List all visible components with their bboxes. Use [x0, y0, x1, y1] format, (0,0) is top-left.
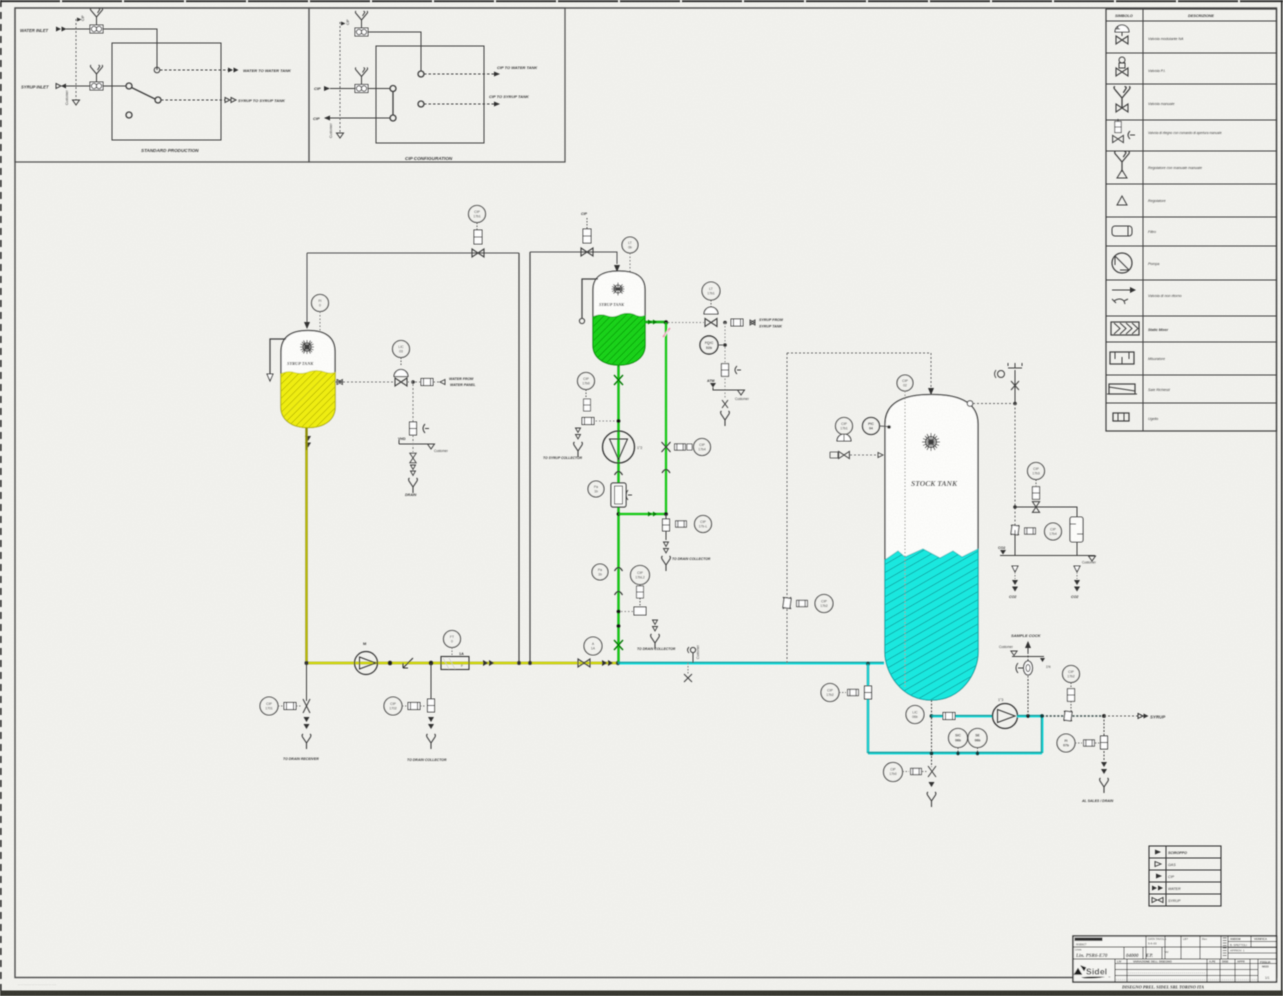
node J5 [617, 512, 621, 516]
arrows right drain [1101, 762, 1107, 774]
pipe cyan return riser [1041, 716, 1043, 753]
legend sym7 filter [1112, 226, 1132, 236]
valve XV4 (cip inlet) [355, 85, 368, 93]
wire CIP riser A down [518, 253, 520, 663]
valve on cyan drop [865, 686, 872, 699]
instrument CIP-1702 [384, 697, 402, 715]
legend sym2 on-off valve [1116, 57, 1128, 76]
tank T3 stock outline [885, 395, 978, 701]
gauge assembly VHD [410, 422, 417, 435]
customer triangle [73, 100, 80, 105]
arrow into stock tank top [928, 388, 934, 395]
vent riser [1014, 370, 1016, 404]
pipe main olive [307, 662, 619, 665]
title row2 cells [1123, 947, 1125, 959]
node J1 [411, 380, 415, 384]
vent circle [998, 371, 1005, 378]
CO2 drain right open arrow [1074, 566, 1080, 572]
customer triangle right [1089, 556, 1096, 561]
solenoid CV-A [474, 230, 482, 244]
key row1 syrup [1155, 850, 1161, 855]
CO2 manifold wire [1000, 555, 1095, 557]
valve drain greentop [722, 400, 728, 408]
page left edge dashes [0, 0, 2, 996]
tank T1 yellow outline [281, 331, 335, 428]
key row3 cip [1156, 874, 1162, 879]
instrument LIC-06 [906, 706, 924, 724]
label CIP small [77, 18, 82, 22]
arrow into green tank [614, 265, 620, 272]
sample cock tee [1012, 656, 1044, 658]
tank T1 yellow fill [281, 371, 335, 428]
wire dashed box to node [621, 611, 634, 613]
valve drain left [303, 699, 310, 713]
node corner [305, 661, 309, 665]
instrument LIC-03 [393, 341, 410, 358]
return arrow [324, 116, 330, 121]
page right edge dark line [1281, 0, 1283, 996]
pipe green cross link [619, 513, 667, 515]
instrument LT-02 on dome [897, 375, 913, 391]
instrument sample right [1063, 666, 1080, 683]
pipe cyan drop [867, 664, 869, 753]
instrument FT above mixer [444, 631, 461, 648]
drain below tank outlet [884, 763, 903, 782]
valve on recirc riser [783, 597, 791, 609]
arrows drain left [304, 717, 310, 729]
node syrup branch [1102, 714, 1106, 718]
node S3 spare [126, 112, 132, 118]
wire CIP header A horizontal [307, 252, 519, 254]
signal wire cip to syrup tank [424, 103, 494, 105]
frame box2 [309, 8, 565, 162]
static mixer SM1 [441, 657, 469, 670]
title row line 2 [1073, 958, 1277, 960]
pipe T1 outlet olive [305, 428, 307, 663]
signal wire cip to water tank [424, 73, 494, 75]
drain Y J6 [662, 556, 671, 571]
frame box1 [15, 8, 309, 162]
instrument LIC-0b [702, 282, 720, 300]
box tag green drain1 [582, 418, 594, 425]
pipe T2 side outlet green [645, 321, 666, 323]
pump P1 [355, 652, 378, 675]
node CO2 mid [1013, 505, 1017, 509]
right drain column [1103, 716, 1105, 760]
node CO2 top [1013, 402, 1017, 406]
arrow cip to syrup tank [494, 102, 500, 107]
instrument recirc [815, 595, 833, 613]
wire yellow tank inlet drop [306, 253, 308, 322]
legend sym11 misuratore [1110, 352, 1134, 364]
node cyan tee [866, 662, 870, 666]
sparger cylinder [1070, 517, 1083, 542]
node J4 [617, 419, 621, 423]
arrows drain lower [653, 620, 658, 631]
valve drain T1 [410, 453, 416, 463]
tank T3 spray ball [922, 433, 940, 451]
instrument LT-17b1 left [836, 418, 853, 435]
tank T1 overflow pipe [270, 339, 286, 374]
vent valve [1011, 381, 1019, 390]
arrow into yellow tank [304, 322, 310, 329]
solenoid CV-B [583, 229, 591, 243]
drain Y green1 [574, 442, 583, 457]
wire to node C3 [368, 88, 390, 90]
instrument J6 [695, 516, 712, 533]
customer stub T1 drain [399, 443, 431, 445]
valve outlet right [1064, 711, 1072, 721]
recirculation dotted riser [786, 353, 788, 663]
wire to switch node [103, 85, 126, 87]
sample cock assembly [1027, 676, 1029, 716]
drain Y left [302, 734, 311, 749]
recirculation dotted header [787, 352, 931, 354]
pipe T2 bottom outlet green [617, 365, 619, 663]
valve CO2 branch [1032, 502, 1039, 513]
valve CO2 lower [1011, 525, 1019, 535]
chevron flow up [615, 472, 623, 476]
box tag drain left [284, 703, 296, 710]
wire CIP header B horizontal [530, 252, 617, 264]
solenoid CO2 [1032, 487, 1039, 500]
box tag CO2 [1025, 528, 1036, 534]
tank T1 spray ball [300, 340, 314, 354]
CO2 dotted drop [1014, 404, 1016, 531]
valve drain center [428, 699, 435, 712]
wire valve to corner [103, 29, 157, 70]
vent tee [1008, 363, 1022, 368]
valve AV1 on main [578, 659, 590, 667]
pipe outlet cyan to pump [932, 715, 994, 717]
drain Y center [427, 734, 436, 749]
arrows side outlet [648, 320, 657, 325]
page top edge line [0, 0, 1283, 2]
solenoid lower [637, 586, 644, 598]
key row5 syrup out [1152, 898, 1163, 903]
pink tag on riser [663, 328, 670, 337]
solenoid green drain1 [584, 399, 591, 411]
node S1 [126, 83, 132, 89]
arrows drain J6 [664, 542, 669, 553]
arrows drain T1 [411, 465, 416, 476]
valve GV2 [614, 640, 623, 650]
title row line 1 [1073, 946, 1277, 948]
node return riser [1040, 714, 1044, 718]
valve SFV w/ dome [705, 319, 717, 327]
instrument PT-1701 [260, 697, 278, 715]
customer dashed drop box2 [339, 22, 341, 133]
valve GRV on right riser [662, 442, 671, 452]
tank T2 overflow pipe [582, 279, 598, 318]
customer sample stub [692, 653, 694, 663]
connector syrup inlet [56, 84, 61, 89]
valve below cyan [684, 674, 692, 682]
node J6 [664, 512, 668, 516]
title texts row1 [1075, 938, 1103, 941]
box tag outlet [943, 713, 955, 720]
node C4 [390, 115, 396, 121]
arrows before junction [602, 660, 613, 666]
arrows drain center [428, 717, 434, 729]
drain Y lower [651, 634, 660, 649]
pipe cyan main [618, 662, 884, 665]
wire T1 level dashed to valve [335, 381, 394, 383]
title verticals row1 [1146, 936, 1277, 959]
drain Y T1 [409, 478, 418, 493]
instrument cyan drop [821, 684, 839, 702]
node W1 [154, 67, 160, 73]
node J7 [617, 610, 621, 614]
legend sym13 ugello [1113, 413, 1129, 421]
tank outlet dotted [931, 700, 933, 767]
customer dashed drop [75, 19, 77, 100]
wire sparger down [1076, 542, 1078, 555]
instrument PI-08 [1028, 463, 1045, 480]
wire return [330, 117, 390, 119]
node J8 [617, 624, 621, 628]
valve XV1 (water inlet) [90, 25, 103, 33]
pipe cyan bottom run [868, 752, 1042, 754]
box tag syrup from [731, 319, 743, 326]
valve CV-A on CIP header A [472, 249, 484, 257]
key row4 water [1152, 886, 1163, 891]
legend sym1 modulating valve [1115, 25, 1129, 44]
wire syrup inlet [66, 85, 90, 87]
instrument Pt-1b [588, 481, 604, 497]
wire dashed to SYRUP [1104, 715, 1138, 717]
pipe after pump [1017, 715, 1042, 717]
valve XV2 (syrup inlet) [90, 82, 103, 90]
switch blade wire [132, 88, 156, 100]
node J3 [723, 321, 727, 325]
key row2 gas [1155, 862, 1161, 867]
chevrons main green lower [615, 568, 623, 572]
signal wire to water tank [160, 69, 228, 71]
node green top junction [664, 320, 668, 324]
node outlet [930, 714, 934, 718]
instrument CIP-A circle [469, 206, 486, 223]
wire dashed to water panel label [433, 381, 440, 383]
legend sym9 non-return [1112, 287, 1136, 304]
box tag left of valve [830, 452, 838, 458]
instrument CIP-17b0 [578, 373, 595, 390]
pipe green right riser [665, 323, 667, 515]
drain Y right [1100, 778, 1109, 793]
instrument FI yellow inlet [312, 295, 329, 312]
instruments under pump [949, 729, 968, 748]
tank T2 spray ball [612, 283, 625, 296]
box tag water panel [421, 379, 433, 386]
legend column divider [1142, 9, 1144, 431]
node bottom outlet cross [930, 752, 934, 756]
arrow water inlet [56, 27, 67, 32]
box tag recirc [797, 600, 808, 606]
instrument A-1A [584, 637, 602, 655]
valve CV-B on CIP header B [581, 248, 593, 256]
signal wire to syrup tank [161, 99, 225, 101]
legend row lines [1106, 21, 1277, 403]
connector arrow syrup from [750, 320, 755, 325]
inner switch box B2 [376, 46, 484, 143]
tank T3 cyan fill [885, 549, 978, 700]
CO2 drain left open arrow [1012, 566, 1018, 572]
dotted fill lines [1128, 972, 1206, 974]
connector key frame [1149, 846, 1221, 906]
wire CIP riser B down [529, 252, 531, 663]
inner switch box B1 [112, 43, 221, 140]
check valve CK1 [403, 658, 413, 668]
legend frame [1106, 9, 1277, 431]
node C3 [390, 86, 396, 92]
arrows cross link [648, 512, 657, 517]
instrument LT-17b [694, 439, 711, 456]
node olive-cyan junction [616, 661, 620, 665]
recirculation drop into tank [930, 353, 932, 388]
instrument PI-09 [1045, 523, 1062, 540]
node C1 [418, 71, 424, 77]
node J2 [429, 661, 434, 666]
chevron right riser [662, 470, 670, 474]
box tag drain center [408, 703, 420, 710]
legend sym12 sale richiesti [1107, 384, 1137, 394]
instrument FI-0b by green tank [622, 237, 638, 253]
arrow cip inlet [324, 86, 330, 91]
label CIP small top [341, 22, 346, 26]
valve drain J6 [663, 519, 670, 531]
node CIP riser A tie [517, 661, 521, 665]
wire water inlet [66, 28, 90, 30]
drain branch left wire [306, 663, 308, 701]
customer stub green [713, 388, 741, 391]
title row3 grid [1115, 959, 1277, 982]
legend sym8 pump [1112, 253, 1132, 273]
legend sym5 regulator w/ manual [1115, 151, 1130, 178]
link wire C3-C4 [392, 92, 394, 116]
drain branch at J6 [665, 514, 667, 540]
node C2 [418, 101, 424, 107]
pump P3 [993, 704, 1018, 729]
connector key rows [1149, 846, 1221, 906]
instrument PIC-04 [863, 418, 880, 435]
CO2 branch wire [1015, 507, 1077, 517]
filter F2 [611, 483, 626, 507]
title block frame [1073, 936, 1277, 982]
valve LV-03 w/ dome [395, 378, 407, 386]
instrument FQ dark [700, 336, 718, 354]
wire to syrup-from valve [668, 322, 704, 324]
connector to syrup tank [225, 98, 230, 103]
overflow open arrow T1 [267, 374, 273, 381]
legend sym4 check valve w/ manual opening [1113, 119, 1135, 143]
solenoid on J3 drop [721, 364, 728, 377]
arrows main line mid [483, 660, 494, 666]
valve GV1 [614, 375, 623, 385]
tank right shoulder outlet [967, 401, 973, 407]
node sample [1026, 714, 1030, 718]
box tag cyan drop [848, 689, 859, 695]
Sidel logo [1074, 966, 1111, 980]
tank T2 green fill [593, 313, 645, 365]
legend sym6 regulator triangle [1117, 196, 1127, 205]
wire J3 drop [724, 323, 726, 399]
instrument Pa-1b lower [592, 564, 608, 580]
arrows T1 outlet [305, 436, 311, 448]
wire valve to tank wall [850, 454, 878, 456]
wire dashed J4 left [592, 420, 616, 422]
box tag right riser [675, 444, 686, 450]
arrows green drain1 [576, 428, 581, 439]
arrow cip to water tank [494, 72, 500, 77]
wire cip inlet [330, 88, 355, 90]
node after pump [388, 661, 393, 666]
node CIP riser B tie [528, 661, 532, 665]
dome valve left of tank [837, 434, 851, 441]
wire dashed drop from J1 [412, 384, 414, 422]
pump P2 [603, 431, 635, 463]
legend sym10 static mixer [1111, 322, 1139, 335]
tank T2 green outline [593, 271, 645, 365]
box tag lower [634, 607, 646, 615]
box tag J6 [676, 521, 687, 527]
instrument CIP-17bL2 [631, 566, 650, 585]
drain Y greentop [721, 411, 730, 426]
valve XV3 (cip top) [355, 28, 368, 36]
legend sym3 manual valve [1114, 86, 1130, 112]
arrow to water tank [228, 68, 239, 73]
drain branch center wire [430, 663, 432, 701]
page bottom dark band [0, 991, 1283, 996]
sample arrow up [1025, 641, 1031, 648]
title row3: logo cell [1114, 959, 1116, 982]
node S2 [155, 97, 161, 103]
customer triangle box2 [337, 133, 344, 138]
solenoid sample right [1067, 689, 1074, 702]
wire cip top to corner [368, 32, 421, 71]
